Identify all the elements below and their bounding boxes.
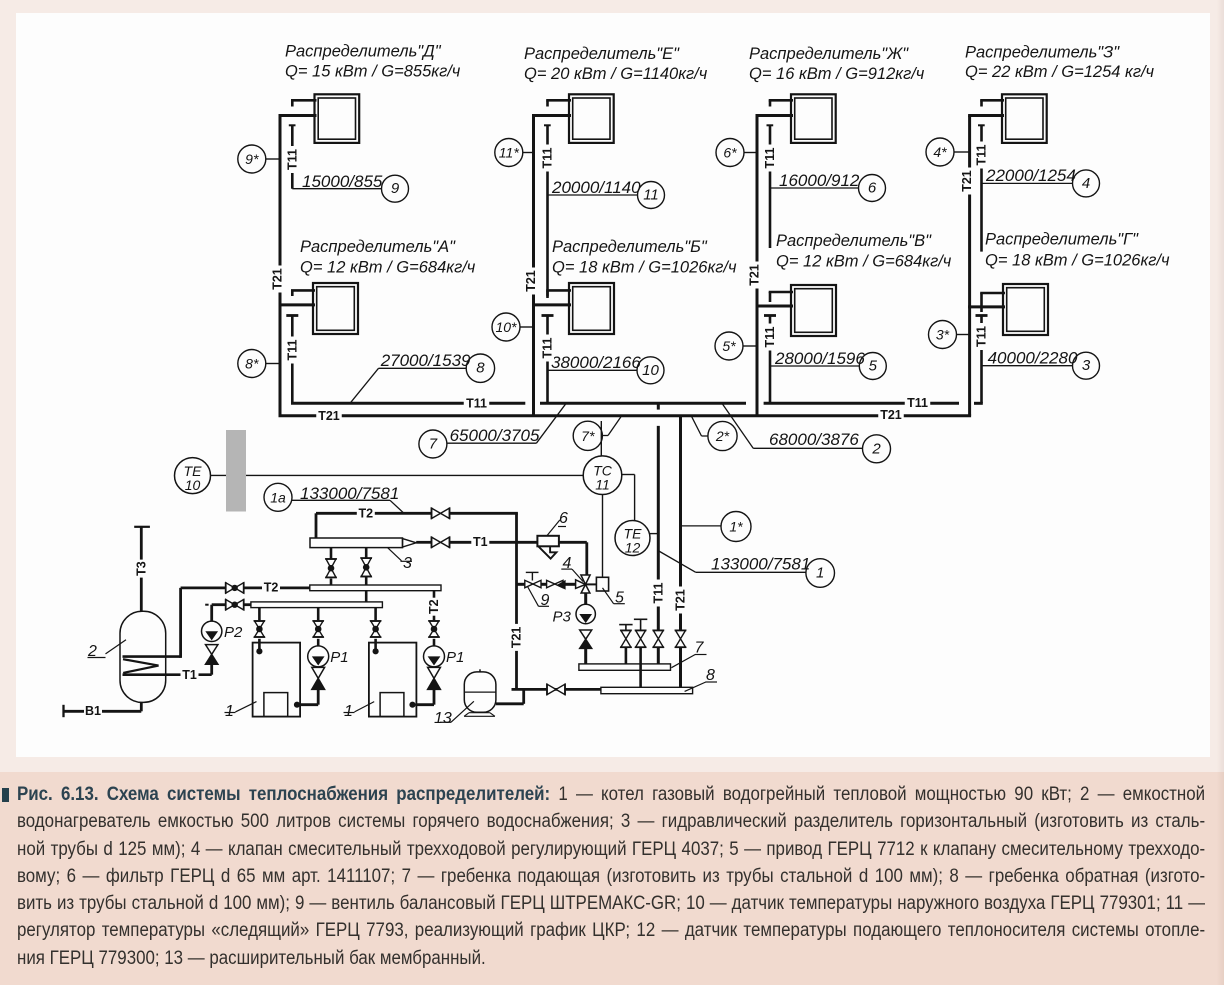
svg-text:68000/3876: 68000/3876	[769, 430, 859, 449]
svg-text:6: 6	[559, 510, 568, 527]
svg-text:22000/1254: 22000/1254	[985, 166, 1076, 185]
svg-text:15000/855: 15000/855	[302, 172, 383, 191]
svg-text:Т11: Т11	[975, 145, 989, 166]
svg-text:7*: 7*	[581, 428, 595, 444]
svg-text:3: 3	[403, 555, 412, 572]
svg-text:Т11: Т11	[907, 396, 928, 410]
svg-text:3*: 3*	[936, 327, 950, 343]
svg-text:Т21: Т21	[318, 409, 340, 423]
svg-text:5*: 5*	[722, 338, 736, 354]
svg-text:133000/7581: 133000/7581	[300, 484, 399, 503]
svg-text:Т1: Т1	[473, 535, 488, 549]
svg-text:Т11: Т11	[763, 327, 777, 348]
svg-text:Р1: Р1	[446, 649, 464, 666]
svg-text:4: 4	[1082, 175, 1090, 192]
svg-text:1*: 1*	[729, 519, 743, 535]
svg-text:9: 9	[391, 180, 400, 197]
svg-text:11*: 11*	[499, 145, 520, 161]
svg-text:Т2: Т2	[427, 599, 441, 614]
svg-text:Распределитель"А": Распределитель"А"	[300, 238, 456, 256]
svg-text:10: 10	[642, 362, 659, 379]
svg-text:9: 9	[541, 592, 550, 609]
svg-text:5: 5	[869, 358, 878, 375]
svg-text:10*: 10*	[495, 319, 517, 335]
svg-text:Т2: Т2	[359, 507, 374, 521]
svg-text:Распределитель"Д": Распределитель"Д"	[285, 43, 442, 61]
svg-text:2*: 2*	[715, 428, 730, 444]
svg-text:3: 3	[1082, 357, 1091, 374]
svg-text:13: 13	[434, 710, 452, 727]
svg-text:Т21: Т21	[510, 627, 524, 649]
svg-text:2: 2	[871, 440, 881, 457]
svg-text:40000/2280: 40000/2280	[988, 349, 1078, 368]
svg-text:В1: В1	[85, 704, 101, 718]
svg-text:27000/1539: 27000/1539	[380, 351, 471, 370]
svg-text:Q= 22 кВт / G=1254 кг/ч: Q= 22 кВт / G=1254 кг/ч	[965, 63, 1155, 81]
svg-text:Т11: Т11	[285, 149, 299, 170]
svg-text:Q= 18 кВт / G=1026кг/ч: Q= 18 кВт / G=1026кг/ч	[985, 252, 1170, 270]
svg-text:10: 10	[185, 477, 201, 493]
svg-text:Т11: Т11	[285, 340, 299, 361]
svg-text:Р3: Р3	[553, 609, 572, 626]
svg-text:8*: 8*	[245, 356, 259, 372]
svg-text:8: 8	[476, 360, 485, 377]
svg-text:1: 1	[344, 703, 353, 720]
svg-text:Т11: Т11	[466, 396, 487, 410]
svg-text:Т11: Т11	[651, 583, 665, 604]
svg-text:1: 1	[225, 703, 234, 720]
svg-text:Распределитель"В": Распределитель"В"	[776, 232, 932, 250]
svg-text:38000/2166: 38000/2166	[551, 353, 641, 372]
svg-text:12: 12	[625, 540, 641, 556]
svg-text:Т21: Т21	[880, 408, 902, 422]
svg-text:Т11: Т11	[763, 148, 777, 169]
svg-text:16000/912: 16000/912	[779, 171, 860, 190]
svg-text:6*: 6*	[723, 145, 737, 161]
svg-text:Распределитель"Е": Распределитель"Е"	[524, 45, 680, 63]
svg-text:Т1: Т1	[182, 668, 197, 682]
svg-text:65000/3705: 65000/3705	[450, 426, 540, 445]
svg-text:11: 11	[643, 187, 659, 204]
svg-text:Т11: Т11	[541, 148, 555, 169]
svg-text:20000/1140: 20000/1140	[551, 178, 641, 197]
svg-text:Q= 16 кВт / G=912кг/ч: Q= 16 кВт / G=912кг/ч	[749, 65, 925, 83]
svg-text:Т11: Т11	[975, 326, 989, 347]
svg-text:Распределитель"З": Распределитель"З"	[965, 44, 1120, 62]
svg-text:5: 5	[615, 590, 624, 607]
svg-text:4*: 4*	[933, 144, 947, 160]
svg-text:Р2: Р2	[224, 624, 243, 641]
svg-text:Т3: Т3	[134, 561, 148, 576]
svg-text:Т2: Т2	[264, 581, 279, 595]
svg-text:6: 6	[868, 180, 877, 197]
svg-text:Т21: Т21	[748, 264, 762, 286]
svg-text:11: 11	[595, 477, 610, 493]
svg-text:Т21: Т21	[674, 589, 688, 611]
svg-text:Распределитель"Ж": Распределитель"Ж"	[749, 45, 909, 63]
svg-text:9*: 9*	[245, 151, 259, 167]
svg-text:28000/1596: 28000/1596	[774, 349, 865, 368]
svg-text:7: 7	[429, 436, 438, 453]
svg-text:Т21: Т21	[271, 268, 285, 290]
svg-text:Q= 12 кВт / G=684кг/ч: Q= 12 кВт / G=684кг/ч	[776, 253, 952, 271]
svg-text:Q= 20 кВт / G=1140кг/ч: Q= 20 кВт / G=1140кг/ч	[524, 65, 708, 83]
svg-text:Q= 18 кВт / G=1026кг/ч: Q= 18 кВт / G=1026кг/ч	[552, 259, 737, 277]
svg-text:Т21: Т21	[524, 270, 538, 292]
svg-text:Т21: Т21	[960, 170, 974, 192]
svg-text:Распределитель"Б": Распределитель"Б"	[552, 238, 708, 256]
svg-text:1а: 1а	[270, 489, 286, 505]
svg-text:Q= 15 кВт / G=855кг/ч: Q= 15 кВт / G=855кг/ч	[285, 63, 461, 81]
svg-text:1: 1	[816, 565, 824, 582]
svg-text:Т11: Т11	[541, 338, 555, 359]
svg-text:Q= 12 кВт / G=684кг/ч: Q= 12 кВт / G=684кг/ч	[300, 259, 476, 277]
svg-text:Р1: Р1	[330, 649, 348, 666]
svg-text:133000/7581: 133000/7581	[711, 555, 810, 574]
svg-text:Распределитель"Г": Распределитель"Г"	[985, 231, 1139, 249]
